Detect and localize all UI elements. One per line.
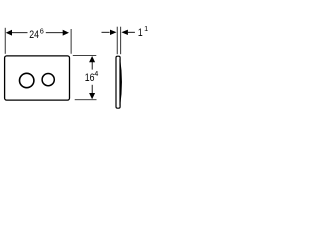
dimension 24-6: right extension line bbox=[70, 29, 72, 54]
svg-text:1: 1 bbox=[144, 24, 148, 33]
dimension 24-6: left extension line bbox=[4, 28, 6, 54]
svg-text:6: 6 bbox=[40, 26, 44, 35]
dimension 16-4: upper segment bbox=[91, 62, 93, 70]
dimension 1-1: right extension line bbox=[120, 27, 122, 55]
dimension 1-1: left extension line bbox=[116, 27, 118, 55]
dimension 24-6: right arrowhead bbox=[63, 30, 69, 36]
big button circle bbox=[20, 73, 34, 87]
front view plate outline bbox=[5, 56, 70, 100]
dimension 1-1: right arrowhead bbox=[121, 30, 128, 35]
side view body bbox=[116, 56, 120, 108]
dimension 24-6: right segment bbox=[46, 32, 63, 34]
small button circle bbox=[42, 74, 54, 86]
dimension 16-4: top extension line bbox=[73, 55, 97, 57]
svg-text:1: 1 bbox=[138, 27, 143, 39]
dimension 1-1: left tail bbox=[102, 31, 110, 33]
dimension 24-6: left segment bbox=[11, 32, 28, 34]
svg-text:4: 4 bbox=[94, 69, 98, 78]
dimension 16-4: lower segment bbox=[91, 85, 93, 94]
svg-text:24: 24 bbox=[29, 29, 39, 41]
dimension 24-6: left arrowhead bbox=[6, 30, 12, 36]
dimension 16-4: top arrowhead bbox=[89, 56, 95, 62]
dimension 1-1: left arrowhead bbox=[110, 30, 117, 35]
dimension 1-1: right tail bbox=[128, 31, 135, 33]
dimension 16-4: bottom arrowhead bbox=[89, 93, 95, 99]
dimension 16-4: bottom extension line bbox=[75, 99, 97, 101]
side view front bulge bbox=[120, 59, 122, 106]
